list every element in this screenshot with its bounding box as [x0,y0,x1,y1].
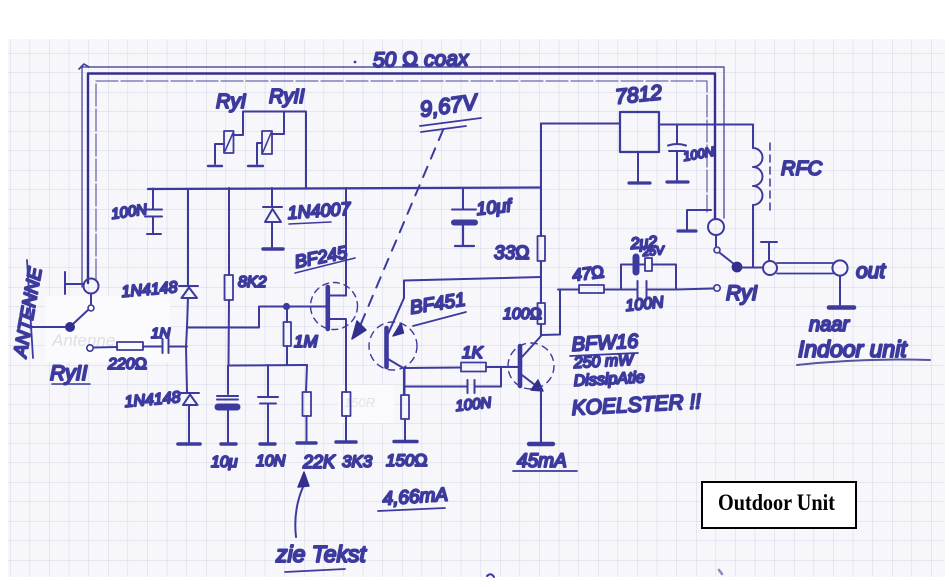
annotation arrow zie Tekst [295,472,309,537]
resistor 1K [461,363,518,372]
svg-text:25V: 25V [641,243,665,259]
resistor 8K2 [225,188,234,364]
svg-text:10μf: 10μf [475,195,514,219]
wire BF245 drain to rail [345,188,347,296]
ground (150R) [394,440,417,443]
stray dot near coax label [354,61,357,64]
relay RyII fixed contact to 220R [87,345,117,351]
relay RyII coil [257,112,284,165]
resistor 220R [117,342,162,350]
inductor RFC [753,125,770,268]
svg-text:10N: 10N [256,453,286,470]
ground (relay RyI coil) [208,165,222,167]
capacitor 100N (base bypass) [404,368,501,394]
wire 7812 input drop [540,124,542,237]
svg-text:50 Ω coax: 50 Ω coax [373,47,470,72]
relay RyI output connector [763,261,777,275]
ground (3K3) [336,440,356,443]
Outdoor Unit title box [702,482,856,528]
svg-text:Indoor unit: Indoor unit [798,336,908,362]
svg-text:RyII: RyII [50,362,88,385]
svg-text:RyII: RyII [269,86,305,108]
capacitor 100N (7812 output) [668,125,686,181]
svg-text:150Ω: 150Ω [386,451,427,470]
svg-text:47Ω: 47Ω [571,262,605,285]
capacitor 1N (series) [163,339,188,353]
label BF245 [293,242,355,273]
relay RyI moving contact switch [714,235,763,271]
wire relay supply [243,112,306,189]
antenna-side coax connector [84,279,99,294]
resistor 150R [401,369,409,440]
label BF451 [408,289,467,326]
svg-text:100Ω: 100Ω [503,306,542,323]
svg-text:RyI: RyI [216,91,246,113]
coax connector (output side) [708,219,724,235]
wire BF451 collector node [404,368,461,396]
ground (out return) [829,276,854,308]
erased pencil mark (150R) [338,385,394,423]
capacitor 100N (left decoupling) [145,189,162,235]
erased pencil mark (antenne) [45,296,170,362]
wire coax middle line [88,74,715,284]
svg-text:1K: 1K [462,343,483,362]
output terminal plate [761,242,777,260]
relay RyI coil [215,112,243,165]
resistor 47R [558,285,621,293]
label zie Tekst [275,541,368,572]
label 1N4007 [287,199,352,224]
svg-text:220Ω: 220Ω [107,356,147,373]
transistor Q1 BF245 [311,283,358,330]
svg-text:3K3: 3K3 [342,452,373,471]
svg-text:naar: naar [809,314,850,336]
main +V rail [148,188,541,190]
resistor 33R [538,236,546,277]
ground (10u) [221,442,236,445]
svg-text:1N: 1N [151,325,170,342]
wire to RyI fixed contact [676,289,713,290]
label 9,67V [418,89,481,132]
measurement arrow 9,67V (dashed) [352,130,443,339]
relay RyII moving contact (antenna switch) [31,294,94,331]
ground (relay RyII coil) [248,165,263,167]
ground (1N4148 branch) [178,442,200,446]
svg-text:RyI: RyI [726,282,758,305]
transistor Q2 BF451 [369,281,417,371]
node wire (8K2/10u/10N/1M/22K net) [228,364,307,367]
svg-text:zie Tekst: zie Tekst [275,541,368,567]
antenna terminal plate [65,272,84,294]
ground (22K) [297,441,316,444]
label ANTENNE [10,260,47,360]
ground (7812) [629,181,650,184]
wire BFW16 collector node [541,290,579,336]
svg-text:8K2: 8K2 [238,274,267,291]
relay RyI fixed contact [714,285,720,291]
label 2u2 25V [629,234,666,259]
svg-text:250 mW: 250 mW [572,352,635,372]
label 45mA [513,451,577,472]
wire BF245 gate net [188,304,326,328]
capacitor 100N (output coupling) [621,281,676,298]
svg-text:out: out [856,260,886,283]
ground (100N 7812) [667,180,688,183]
svg-text:22K: 22K [302,452,336,472]
label BFW16 [570,330,702,420]
svg-text:150R: 150R [344,395,375,410]
diode 1N4007 [263,188,283,249]
resistor 22K [303,365,312,441]
resistor 1M [284,306,292,364]
svg-text:33Ω: 33Ω [494,243,530,264]
regulator U1 7812 [541,112,753,181]
svg-text:45mA: 45mA [517,451,567,472]
label naar Indoor unit [797,314,930,365]
capacitor 10Mf [452,189,476,246]
capacitor 2u2 electrolytic [621,257,676,290]
coax shield ground bracket [678,210,711,231]
stray mark [487,574,494,577]
stray mark 2 [719,570,722,574]
diode 1N4148 lower [181,327,199,442]
capacitor 10N [258,365,278,442]
resistor 3K3 [342,320,351,440]
label 4,66mA [378,484,449,511]
wire coax outer line [79,64,724,287]
svg-text:7812: 7812 [614,81,663,109]
svg-text:RFC: RFC [781,158,823,180]
ground (10N) [260,442,275,445]
wire BFW16 emitter to ground [540,390,542,442]
wire coax inner line [96,81,707,281]
transistor Q3 BFW16 [508,336,554,391]
svg-text:Outdoor Unit: Outdoor Unit [718,490,835,515]
ground (BFW16 emitter) [529,442,553,446]
svg-text:1M: 1M [294,332,318,351]
out connector [832,260,847,275]
wire twin line to out [777,263,833,274]
capacitor 10u electrolytic [217,366,238,442]
diode 1N4148 upper [179,189,198,327]
wire BF451 emitter rail [404,277,541,281]
svg-text:10μ: 10μ [211,454,238,471]
resistor 100R [538,277,546,335]
